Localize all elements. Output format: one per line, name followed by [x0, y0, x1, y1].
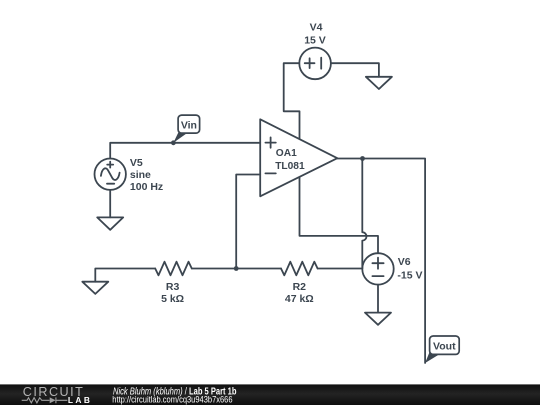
wire V4 left to op-amp VCC pin	[284, 63, 300, 139]
svg-text:R3: R3	[166, 281, 180, 293]
op-amp - input symbol	[265, 172, 275, 174]
node Vin junction dot	[171, 140, 176, 145]
svg-text:sine: sine	[130, 169, 151, 181]
wire V4 right to ground	[331, 63, 379, 77]
wire output feedback with hop over VEE wire	[362, 159, 366, 269]
svg-text:15 V: 15 V	[304, 34, 326, 46]
op-amp OA1 triangle	[260, 119, 337, 196]
footer bar	[0, 384, 540, 405]
svg-text:Vout: Vout	[433, 341, 456, 353]
ground GND3 (bottom left)	[82, 282, 108, 294]
wire op-amp inverting input to feedback node	[236, 175, 260, 269]
wire R2 to output feedback junction	[318, 268, 363, 270]
svg-text:LAB: LAB	[68, 395, 90, 405]
ground GND1 (V4 right)	[366, 77, 392, 89]
wire ground to R3	[95, 269, 155, 282]
resistor R2	[281, 262, 318, 276]
svg-text:V6: V6	[398, 256, 411, 268]
svg-text:http://circuitlab.com/cq3u943b: http://circuitlab.com/cq3u943b7x666	[112, 394, 232, 405]
flag Vin	[173, 115, 199, 143]
wire op-amp VEE pin to V6 plus terminal	[300, 177, 379, 253]
op-amp + input symbol	[265, 137, 275, 147]
svg-text:100 Hz: 100 Hz	[130, 181, 163, 193]
voltage source V5	[95, 159, 126, 190]
wire Vin node: V5 top to op-amp + input	[110, 143, 260, 159]
svg-text:R2: R2	[293, 281, 307, 293]
wire V5 bottom to ground	[109, 190, 111, 218]
logo resistor-diode squiggle	[22, 397, 68, 403]
svg-text:5 kΩ: 5 kΩ	[161, 293, 184, 305]
flag Vout	[425, 336, 459, 363]
svg-text:Vin: Vin	[181, 119, 197, 131]
svg-text:-15 V: -15 V	[397, 270, 422, 282]
node feedback junction dot	[234, 266, 239, 271]
ground GND4 (V6)	[365, 313, 391, 325]
resistor R3	[155, 262, 192, 276]
svg-text:TL081: TL081	[275, 161, 305, 172]
svg-text:OA1: OA1	[276, 148, 297, 159]
svg-text:V4: V4	[310, 22, 323, 34]
wire R3 to R2	[192, 268, 281, 270]
wire op-amp output to Vout corner	[337, 159, 425, 364]
voltage source V4	[299, 48, 331, 80]
svg-text:47 kΩ: 47 kΩ	[285, 293, 314, 305]
voltage source V6	[362, 253, 393, 284]
ground GND2 (V5)	[97, 217, 123, 229]
wire V6 bottom to ground	[377, 285, 379, 313]
svg-text:V5: V5	[130, 157, 143, 169]
node output junction dot	[360, 156, 365, 161]
